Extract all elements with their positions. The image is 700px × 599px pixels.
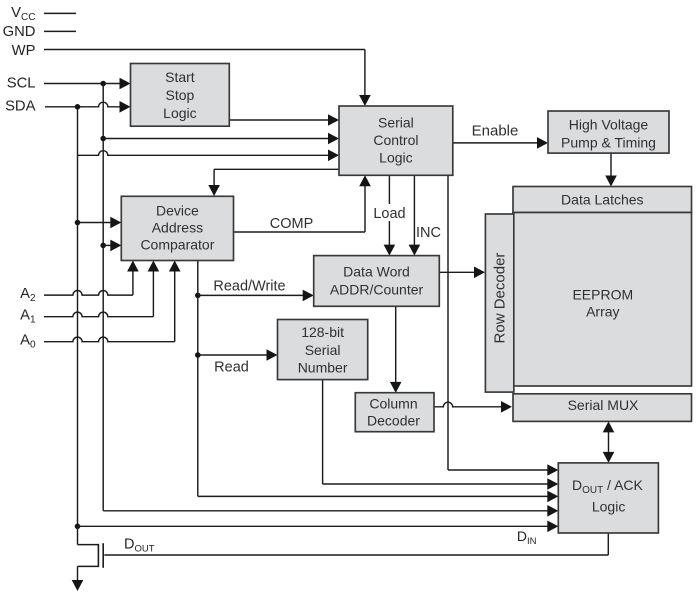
svg-text:ADDR/Counter: ADDR/Counter [330,282,424,298]
svg-text:GND: GND [3,24,36,40]
svg-text:WP: WP [12,43,36,59]
svg-text:High Voltage: High Voltage [569,117,649,133]
svg-text:COMP: COMP [270,216,314,232]
svg-text:Logic: Logic [163,105,196,121]
svg-text:INC: INC [416,225,441,241]
svg-text:Array: Array [586,304,619,320]
svg-text:SCL: SCL [7,76,36,92]
svg-text:SDA: SDA [5,99,36,115]
svg-text:Logic: Logic [379,150,412,166]
svg-text:Control: Control [373,132,418,148]
svg-text:Serial: Serial [378,115,414,131]
svg-text:Start: Start [165,69,195,85]
svg-text:Data Word: Data Word [343,264,410,280]
svg-text:Address: Address [152,220,203,236]
svg-text:Load: Load [373,206,405,222]
svg-text:128-bit: 128-bit [301,324,344,340]
svg-text:Read: Read [214,360,249,376]
svg-text:Serial MUX: Serial MUX [568,397,639,413]
svg-text:Device: Device [156,203,199,219]
svg-text:Pump & Timing: Pump & Timing [561,135,656,151]
svg-text:Read/Write: Read/Write [213,278,285,294]
svg-text:Decoder: Decoder [367,413,420,429]
svg-text:Stop: Stop [165,87,194,103]
svg-text:Row Decoder: Row Decoder [492,253,509,344]
svg-text:Column: Column [369,396,417,412]
svg-text:Number: Number [298,360,348,376]
svg-text:EEPROM: EEPROM [572,287,633,303]
svg-text:Logic: Logic [592,499,625,515]
svg-text:Serial: Serial [305,342,341,358]
svg-text:Comparator: Comparator [140,237,214,253]
svg-text:Data Latches: Data Latches [561,191,644,207]
svg-text:Enable: Enable [472,123,519,140]
